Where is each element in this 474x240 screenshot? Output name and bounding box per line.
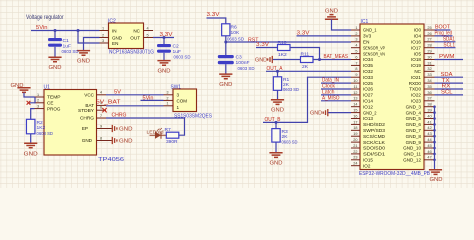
junction C2 (163, 36, 166, 39)
svg-text:SCL1: SCL1 (444, 42, 456, 48)
svg-text:1: 1 (37, 93, 39, 97)
IC2 pin 3 EN (100, 42, 109, 44)
svg-text:GND: GND (112, 35, 123, 40)
svg-text:COM: COM (177, 99, 188, 104)
ground TEMP/CE (11, 83, 31, 92)
wire 3.3V to R10 (256, 47, 278, 49)
svg-text:GND_4: GND_4 (406, 110, 422, 115)
IC1 pin 3 EN (351, 38, 369, 45)
IC2 pin 1 IN (100, 30, 109, 32)
svg-text:TXD0: TXD0 (409, 87, 421, 92)
svg-text:IO22: IO22 (411, 93, 421, 98)
wire OUT 3.3V (153, 37, 174, 39)
junction gnd rail row 16 (433, 117, 436, 120)
svg-text:1: 1 (102, 26, 104, 30)
svg-text:IC1: IC1 (361, 19, 369, 25)
svg-text:CHRG: CHRG (80, 116, 94, 121)
IC1 pin 30 IO18 (411, 55, 434, 62)
wire EN tie vertical (78, 31, 100, 44)
svg-text:CE: CE (47, 101, 53, 106)
svg-text:NCP163ASN330T1G: NCP163ASN330T1G (109, 49, 154, 55)
svg-text:18: 18 (353, 126, 357, 130)
svg-text:GND: GND (255, 57, 267, 63)
wire VCC 5V to SW1 pin3 (106, 94, 164, 96)
svg-text:5V_BAT: 5V_BAT (96, 99, 121, 105)
svg-text:GND_5: GND_5 (406, 116, 422, 121)
resistor R10 1K2 (278, 40, 291, 58)
IC1 pin 20 SCK/CLK (351, 138, 386, 145)
svg-text:43: 43 (427, 132, 431, 136)
svg-text:TEMP: TEMP (47, 95, 61, 100)
svg-text:NC: NC (414, 69, 421, 74)
svg-text:2: 2 (355, 32, 357, 36)
IC1 pin 5 SENSOR_VN (351, 50, 385, 57)
junction gnd rail row 14 (433, 105, 436, 108)
IC1 pin 42 GND_7 (406, 126, 435, 133)
junction BAT_MEAS (318, 58, 321, 61)
resistor R3 2K (272, 122, 298, 152)
svg-text:SW1: SW1 (171, 84, 182, 90)
wire OUT_A to IC1 IO32 (266, 70, 351, 72)
svg-text:19: 19 (353, 132, 357, 136)
IC1 pin 43 GND_8 (406, 132, 435, 139)
svg-text:GND: GND (119, 127, 133, 133)
junction gnd rail row 23 (433, 159, 436, 162)
wire gnd to TEMP (24, 93, 35, 97)
IC1 pin 31 IO19 (411, 61, 434, 68)
svg-text:2K: 2K (302, 64, 309, 70)
svg-text:EN: EN (363, 40, 369, 45)
svg-text:GND_3: GND_3 (406, 104, 422, 109)
svg-text:5Vin: 5Vin (36, 25, 48, 31)
wire R6 to node (225, 36, 227, 42)
wire Data_IN (321, 82, 351, 84)
svg-text:3: 3 (102, 39, 104, 43)
svg-text:GND: GND (310, 111, 322, 117)
svg-text:1: 1 (167, 102, 169, 106)
ground C2 (157, 61, 170, 75)
svg-text:SHD/SD2: SHD/SD2 (363, 122, 385, 127)
svg-text:R11: R11 (301, 52, 310, 58)
wire/net RX (435, 84, 464, 90)
svg-text:IO32: IO32 (363, 69, 373, 74)
IC1 pin 18 SWP/SD3 (351, 126, 385, 133)
ground R1 (271, 100, 284, 114)
svg-text:0603 SD: 0603 SD (62, 49, 79, 55)
wire GND rail right (434, 107, 436, 170)
svg-text:IN: IN (112, 28, 117, 33)
svg-text:2: 2 (37, 99, 39, 103)
U1 pin 4 VCC (84, 91, 106, 98)
svg-text:5Vin: 5Vin (143, 96, 154, 102)
svg-text:GND: GND (24, 151, 38, 157)
IC1 pin 45 GND_10 (403, 144, 434, 151)
wire OUT_B up to IC1 IO33 (263, 77, 351, 122)
svg-text:39: 39 (427, 109, 431, 113)
ground flag GND (U1) (106, 137, 133, 145)
wire BAT 5V_BAT to SW1 pin1 (106, 105, 164, 107)
wire PROG to R2 (31, 109, 35, 120)
resistor R11 2K (301, 52, 314, 70)
wire/net SCL (435, 90, 464, 96)
IC1 pin 25 IO0 (414, 26, 435, 33)
svg-text:3: 3 (355, 38, 357, 42)
wire RST to IC1 EN (226, 41, 351, 43)
svg-text:46: 46 (427, 150, 431, 154)
wire R11 to BAT_MEAS (313, 59, 351, 61)
U1 pin 1 TEMP (35, 93, 61, 100)
svg-text:34: 34 (427, 79, 431, 83)
svg-text:IO16: IO16 (411, 40, 421, 45)
IC1 pin 10 IO25 (351, 79, 373, 86)
svg-text:17: 17 (353, 120, 357, 124)
ground R3 (269, 153, 282, 167)
SW1 pin 2 (164, 99, 174, 101)
wire A_MISO (321, 100, 351, 102)
IC1 pin 37 IO23 (411, 97, 434, 104)
svg-text:390R: 390R (166, 139, 178, 145)
svg-text:7: 7 (355, 61, 357, 65)
wire/net BOOT (435, 25, 451, 31)
IC1 pin 14 IO12 (351, 103, 373, 110)
svg-text:3: 3 (37, 104, 39, 108)
U1 pin 5 BAT (85, 101, 106, 108)
wire/net TX (435, 78, 464, 84)
svg-text:GND: GND (49, 65, 62, 71)
ground GND_1 (top) (325, 9, 338, 20)
svg-text:16: 16 (353, 114, 357, 118)
svg-text:IO34: IO34 (363, 57, 373, 62)
svg-text:3.3V: 3.3V (207, 12, 220, 18)
svg-text:29: 29 (427, 50, 431, 54)
svg-text:9: 9 (355, 73, 357, 77)
no-connect cross STDBY (102, 108, 106, 112)
svg-text:R6: R6 (231, 25, 238, 31)
svg-text:11: 11 (354, 85, 358, 89)
U1 pin 7 CHRG (80, 114, 106, 121)
svg-text:A_MISO: A_MISO (322, 95, 340, 101)
svg-text:IO25: IO25 (363, 81, 373, 86)
IC1 pin 27 IO16 (411, 38, 434, 45)
svg-text:0603 SD: 0603 SD (283, 87, 299, 93)
svg-text:6: 6 (355, 55, 357, 59)
svg-text:40: 40 (427, 114, 431, 118)
IC1 pin 19 SCS/CMD (351, 132, 386, 139)
IC1 pin 8 IO32 (351, 67, 373, 74)
svg-text:3.3V: 3.3V (160, 32, 173, 38)
svg-text:100nF: 100nF (236, 60, 250, 66)
svg-text:24: 24 (353, 162, 357, 166)
capacitor C2 (157, 38, 191, 61)
junction gnd rail row 21 (433, 147, 436, 150)
resistor R1 2K (273, 71, 299, 99)
wire R10 to node (290, 48, 320, 60)
svg-text:SS1S03SM2QES: SS1S03SM2QES (174, 113, 213, 119)
SW1 pin 3 (164, 94, 174, 96)
svg-text:9: 9 (100, 124, 102, 128)
wire GND of IC2 (84, 38, 100, 51)
IC1 pin 7 IO35 (351, 61, 373, 68)
svg-text:30: 30 (427, 55, 431, 59)
svg-text:8: 8 (355, 67, 357, 71)
svg-text:GND_6: GND_6 (406, 122, 422, 127)
svg-text:5: 5 (146, 33, 148, 37)
no-connect cross CE wire end (27, 101, 31, 105)
svg-text:1: 1 (177, 105, 180, 110)
svg-text:12: 12 (353, 91, 357, 95)
svg-text:IO35: IO35 (363, 63, 373, 68)
SW1 pin 1 (164, 105, 174, 107)
U1 pin 3 PROG (35, 104, 61, 111)
IC1 pin 28 IO17 (411, 44, 434, 51)
svg-text:IO13: IO13 (363, 116, 373, 121)
svg-text:VCC: VCC (84, 93, 94, 98)
svg-text:LEDred: LEDred (147, 129, 164, 135)
IC2 pin 2 GND (100, 37, 109, 39)
svg-text:IC2: IC2 (108, 18, 116, 24)
svg-text:1: 1 (355, 26, 357, 30)
svg-text:14: 14 (353, 103, 357, 107)
U1 pin 9 EP (82, 124, 106, 131)
svg-text:25: 25 (427, 26, 431, 30)
svg-text:4: 4 (146, 26, 148, 30)
svg-text:4: 4 (355, 44, 357, 48)
junction gnd rail row 20 (433, 141, 436, 144)
svg-text:IO18: IO18 (411, 57, 421, 62)
svg-text:3: 3 (177, 92, 180, 97)
wire GND_1 (332, 19, 352, 30)
svg-text:STDBY: STDBY (78, 108, 94, 113)
svg-text:2: 2 (102, 33, 104, 37)
svg-text:1uF: 1uF (63, 44, 71, 50)
IC1 pin 12 IO27 (351, 91, 373, 98)
svg-text:SWP/SD3: SWP/SD3 (363, 128, 385, 133)
svg-text:GND_2: GND_2 (363, 110, 377, 115)
IC1 pin 2 3V3 (351, 32, 372, 39)
svg-text:IO12: IO12 (363, 104, 373, 109)
svg-text:CHRG: CHRG (112, 113, 127, 119)
resistor R6 10K (222, 24, 245, 43)
IC1 pin 9 IO33 (351, 73, 373, 80)
junction gnd rail row 15 (433, 111, 436, 114)
svg-text:32: 32 (427, 67, 431, 71)
wire 3.3V to R6 (207, 18, 226, 24)
svg-text:GND_7: GND_7 (406, 128, 422, 133)
junction at C1 (54, 29, 57, 32)
U1 pin 6 STDBY (78, 105, 106, 113)
svg-text:0603 SD: 0603 SD (238, 66, 255, 72)
svg-text:R3: R3 (282, 129, 289, 135)
svg-text:R7: R7 (165, 127, 172, 133)
svg-text:31: 31 (427, 61, 431, 65)
wire 5Vin to SW1 pin2 (141, 99, 164, 101)
svg-text:38: 38 (427, 103, 431, 107)
IC1 pin 34 RXD0 (409, 79, 435, 86)
svg-text:R10: R10 (278, 40, 287, 46)
ground C1 (48, 57, 61, 71)
svg-text:IO33: IO33 (363, 75, 373, 80)
svg-text:IO17: IO17 (411, 45, 421, 50)
svg-text:IO5: IO5 (414, 51, 422, 56)
IC1 pin 35 TXD0 (409, 85, 434, 92)
svg-text:0603 SD: 0603 SD (227, 36, 244, 42)
svg-text:22: 22 (353, 150, 357, 154)
wire 5Vin rail (31, 30, 100, 32)
svg-text:SCL: SCL (441, 90, 453, 96)
svg-text:GND: GND (271, 107, 284, 113)
junction gnd rail row 18 (433, 129, 436, 132)
svg-text:IO23: IO23 (411, 99, 421, 104)
wire/net PWM (435, 54, 464, 60)
svg-text:23: 23 (353, 156, 357, 160)
svg-text:BAT_MEAS: BAT_MEAS (324, 54, 349, 60)
svg-text:4: 4 (100, 91, 102, 95)
svg-text:GND: GND (119, 139, 133, 145)
svg-text:2K: 2K (283, 82, 290, 88)
ground flag EP (106, 125, 133, 133)
svg-text:5V: 5V (114, 90, 121, 96)
U1 pin 8 GND (82, 136, 106, 143)
IC1 pin 44 GND_9 (406, 138, 435, 145)
svg-text:21: 21 (353, 144, 357, 148)
IC1 pin 11 IO26 (351, 85, 373, 92)
svg-text:5: 5 (355, 50, 357, 54)
IC1 pin 29 IO5 (414, 50, 435, 57)
svg-text:C2: C2 (173, 44, 180, 50)
IC1 pin 6 IO34 (351, 55, 373, 62)
wire/net SDA (435, 72, 464, 78)
svg-text:10K: 10K (231, 30, 240, 36)
svg-text:PWM: PWM (439, 54, 455, 60)
ground flag (divider) (255, 56, 272, 63)
ground flag GND_2 pin (310, 109, 328, 117)
IC1 pin 40 GND_5 (406, 114, 435, 121)
svg-text:C3: C3 (236, 55, 243, 61)
svg-text:ESP32-WROOM-32D__4MB_PB: ESP32-WROOM-32D__4MB_PB (359, 171, 431, 177)
svg-text:2: 2 (167, 96, 169, 100)
svg-text:GND_11: GND_11 (403, 152, 421, 157)
svg-text:35: 35 (427, 85, 431, 89)
junction gnd rail row 17 (433, 123, 436, 126)
svg-text:EN: EN (112, 41, 118, 46)
ground IC1 (bottom right) (429, 170, 443, 183)
wire Clock (321, 88, 351, 90)
svg-text:10: 10 (353, 79, 357, 83)
IC1 pin 15 GND_2 (351, 109, 377, 116)
svg-text:27: 27 (427, 38, 431, 42)
svg-text:36: 36 (427, 91, 431, 95)
svg-text:41: 41 (427, 120, 431, 124)
IC1 pin 21 SDO/SD0 (351, 144, 385, 151)
wire Latch (321, 94, 351, 96)
svg-text:42: 42 (427, 126, 431, 130)
IC1 pin 26 IO4 (414, 32, 435, 39)
svg-text:7: 7 (100, 114, 102, 118)
IC2 pin 4 NC (144, 30, 154, 32)
IC2 body (108, 18, 154, 55)
svg-text:0603 SD: 0603 SD (282, 139, 298, 145)
svg-text:R1: R1 (283, 77, 290, 83)
svg-text:GND: GND (82, 138, 93, 143)
svg-text:IO19: IO19 (411, 63, 421, 68)
wire TEMP-CE tie (29, 97, 35, 103)
IC1 pin 46 GND_11 (403, 150, 434, 157)
wire CHRG to LED/R7 (106, 118, 185, 135)
IC1 body ESP32-WROOM-32D (359, 19, 431, 177)
svg-text:EP: EP (82, 126, 88, 131)
IC1 pin 16 IO13 (351, 114, 373, 121)
IC1 pin 39 GND_4 (406, 109, 435, 116)
svg-text:1K2: 1K2 (278, 52, 287, 58)
svg-text:8: 8 (100, 136, 102, 140)
wire 3.3V to 3V3 (297, 35, 352, 37)
junction RST node (224, 41, 227, 44)
IC1 pin 22 SDI/SD1 (351, 150, 386, 157)
IC1 pin 32 NC (414, 67, 434, 74)
capacitor C1 (48, 31, 79, 58)
svg-text:Voltage regulator: Voltage regulator (26, 14, 64, 21)
junction R3 (275, 121, 278, 124)
IC1 pin 24 IO2 (351, 162, 371, 169)
svg-text:47: 47 (427, 156, 431, 160)
IC2 pin 5 OUT (144, 37, 154, 39)
svg-text:SDO/SD0: SDO/SD0 (363, 146, 385, 151)
svg-text:GND: GND (325, 9, 338, 15)
svg-text:20: 20 (353, 138, 357, 142)
svg-text:GND_12: GND_12 (403, 158, 421, 163)
svg-text:U1: U1 (44, 85, 51, 91)
svg-text:GND_8: GND_8 (406, 134, 422, 139)
svg-text:28: 28 (427, 44, 431, 48)
IC1 pin 13 IO14 (351, 97, 373, 104)
svg-text:IO14: IO14 (363, 99, 373, 104)
svg-text:6: 6 (100, 105, 102, 109)
svg-text:PROG: PROG (47, 106, 61, 111)
junction R1 (276, 70, 279, 73)
svg-text:1uF: 1uF (173, 49, 181, 55)
svg-text:GND: GND (430, 177, 443, 183)
svg-text:GND: GND (158, 68, 171, 74)
svg-text:NC: NC (133, 28, 140, 33)
svg-text:37: 37 (427, 97, 431, 101)
IC1 pin 41 GND_6 (406, 120, 435, 127)
IC1 pin 47 GND_12 (403, 156, 434, 163)
svg-text:33: 33 (427, 73, 431, 77)
svg-text:RXD0: RXD0 (409, 81, 422, 86)
svg-text:0603 SD: 0603 SD (174, 54, 191, 60)
IC1 pin 36 IO22 (411, 91, 434, 98)
LED LEDred (147, 128, 167, 139)
capacitor C3 100nF (218, 42, 255, 74)
U1 body TP4056 (44, 85, 125, 163)
IC1 pin 33 IO21 (411, 73, 434, 80)
svg-text:GND: GND (270, 160, 283, 166)
junction IN/EN tie (77, 29, 80, 32)
svg-text:IO4: IO4 (414, 34, 422, 39)
svg-text:IO26: IO26 (363, 87, 373, 92)
ground IC2 GND (77, 51, 90, 65)
svg-text:SENSOR_VP: SENSOR_VP (363, 45, 385, 50)
svg-text:GND: GND (77, 58, 90, 64)
svg-text:26: 26 (427, 32, 431, 36)
wire/net Prog_led (435, 31, 453, 37)
svg-text:GND: GND (219, 82, 232, 88)
U1 pin 2 CE (35, 99, 54, 106)
SW1 body slide switch (171, 84, 213, 119)
svg-text:15: 15 (353, 109, 357, 113)
svg-text:C1: C1 (63, 38, 70, 44)
IC1 pin 4 SENSOR_VP (351, 44, 385, 51)
